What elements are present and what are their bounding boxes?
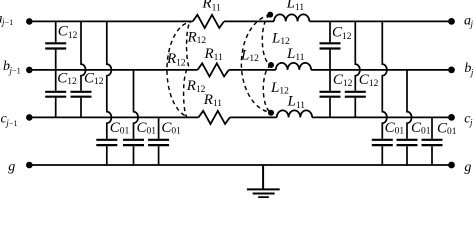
wire column right 1 (a-b and b-c caps) bbox=[329, 21, 331, 117]
wire column right 2 (a-c cap), hop over b bbox=[355, 21, 360, 117]
polarity dot inductor a bbox=[267, 12, 273, 18]
wire column right 5 (c-g cap) bbox=[431, 117, 433, 165]
capacitor C01 c-g right bbox=[422, 140, 443, 145]
coupling arc L12 a-b (dashed) bbox=[262, 15, 271, 65]
node dot terminal a j-1 bbox=[26, 18, 33, 25]
capacitor C01 a-g left bbox=[96, 140, 117, 145]
capacitor C12 a-c left bbox=[71, 92, 92, 97]
capacitor C01 b-g left bbox=[123, 140, 144, 145]
resistor R11 phase b bbox=[198, 63, 229, 76]
wire column left 2 (a-c cap), hop over b bbox=[81, 21, 86, 117]
wire line c bbox=[32, 116, 448, 118]
svg-text:R12: R12 bbox=[166, 51, 186, 68]
resistor R11 phase a bbox=[193, 15, 224, 28]
svg-text:R11: R11 bbox=[203, 92, 223, 109]
wire column right 3 (a-g cap), hops over b and c bbox=[382, 21, 387, 165]
node dot terminal g left bbox=[26, 162, 33, 169]
svg-text:R12: R12 bbox=[187, 29, 207, 46]
svg-text:C12: C12 bbox=[58, 24, 78, 41]
coupling arc R12 a-c (dashed) bbox=[167, 22, 191, 117]
capacitor C12 b-c left bbox=[45, 92, 66, 97]
capacitor C12 a-b right bbox=[320, 43, 341, 48]
svg-text:R11: R11 bbox=[201, 0, 221, 13]
inductor L11 phase c bbox=[277, 110, 312, 117]
svg-text:C01: C01 bbox=[110, 120, 130, 137]
svg-text:aj: aj bbox=[464, 14, 474, 29]
svg-text:L11: L11 bbox=[287, 93, 306, 111]
node dot terminal a j bbox=[448, 18, 455, 25]
wire column left 3 (a-g cap), hops over b and c bbox=[107, 21, 112, 165]
capacitor C12 b-c right bbox=[320, 92, 341, 97]
capacitor C01 c-g left bbox=[148, 140, 169, 145]
capacitor C12 a-b left bbox=[45, 43, 66, 48]
inductor L11 phase a bbox=[274, 14, 309, 21]
wire column left 5 (c-g cap) bbox=[158, 117, 160, 165]
wire line a bbox=[32, 20, 448, 22]
node dot terminal c j-1 bbox=[26, 114, 33, 121]
wire column right 4 (b-g cap), hop over c bbox=[407, 70, 412, 165]
coupling arc L12 a-c (dashed) bbox=[241, 15, 271, 113]
coupling arc L12 b-c (dashed) bbox=[263, 65, 271, 113]
ground symbol bbox=[247, 165, 280, 197]
polarity dot inductor c bbox=[268, 110, 274, 116]
svg-text:L12: L12 bbox=[270, 80, 289, 97]
svg-text:C12: C12 bbox=[84, 70, 104, 87]
polarity dot inductor b bbox=[268, 62, 274, 68]
coupling arc R12 b-c (dashed) bbox=[184, 69, 190, 117]
capacitor C01 a-g right bbox=[372, 140, 393, 145]
wire column left 4 (b-g cap), hop over c bbox=[134, 70, 139, 165]
svg-text:C01: C01 bbox=[437, 120, 457, 137]
svg-text:L12: L12 bbox=[240, 48, 259, 65]
capacitor C12 a-c right bbox=[345, 92, 366, 97]
svg-text:C12: C12 bbox=[57, 70, 77, 87]
svg-text:cj: cj bbox=[464, 111, 473, 127]
node dot terminal g right bbox=[448, 162, 455, 169]
capacitor C01 b-g right bbox=[397, 140, 418, 145]
node dot terminal c j bbox=[448, 114, 455, 121]
resistor R11 phase c bbox=[199, 111, 230, 124]
svg-text:g: g bbox=[8, 160, 15, 175]
svg-text:L11: L11 bbox=[286, 46, 305, 63]
svg-text:C01: C01 bbox=[411, 120, 431, 137]
svg-text:aj−1: aj−1 bbox=[0, 12, 13, 27]
svg-text:C01: C01 bbox=[161, 120, 181, 137]
coupling arc R12 a-b (dashed) bbox=[187, 22, 191, 69]
svg-text:L11: L11 bbox=[286, 0, 305, 13]
node dot terminal b j-1 bbox=[26, 67, 33, 74]
svg-text:L12: L12 bbox=[271, 31, 290, 48]
inductor L11 phase b bbox=[276, 63, 311, 70]
svg-text:C12: C12 bbox=[359, 72, 379, 89]
wire line b bbox=[32, 69, 448, 71]
wire line g bbox=[32, 164, 448, 166]
svg-text:C01: C01 bbox=[137, 120, 157, 137]
wire column left 1 (a-b and b-c caps) bbox=[55, 21, 57, 117]
svg-text:g: g bbox=[464, 160, 471, 175]
svg-text:bj−1: bj−1 bbox=[3, 59, 21, 75]
svg-text:cj−1: cj−1 bbox=[1, 112, 18, 128]
svg-text:C12: C12 bbox=[333, 72, 353, 89]
svg-text:R12: R12 bbox=[186, 78, 206, 95]
svg-text:bj: bj bbox=[464, 61, 474, 77]
node dot terminal b j bbox=[448, 67, 455, 74]
svg-text:C12: C12 bbox=[332, 25, 352, 42]
svg-text:C01: C01 bbox=[385, 120, 405, 137]
svg-text:R11: R11 bbox=[204, 46, 224, 63]
